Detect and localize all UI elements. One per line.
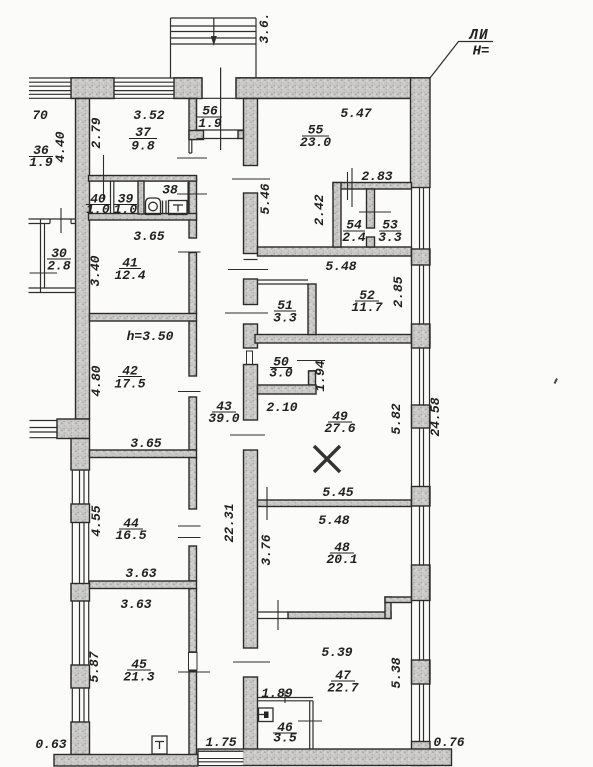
wall: room51 right wall: [308, 284, 316, 335]
svg-text:24.58: 24.58: [428, 397, 443, 436]
wall: top-left corner block: [71, 78, 114, 99]
divider rooms 40/39 thin wall: [111, 181, 114, 214]
wall: left below jut: [71, 439, 90, 471]
svg-text:3.3: 3.3: [273, 311, 297, 326]
wall: left block 5: [71, 722, 90, 755]
wall: corridor-left seg3: [189, 253, 197, 314]
room56 niche lines: [197, 138, 239, 140]
svg-text:22.7: 22.7: [327, 681, 358, 696]
underline room30: [47, 258, 71, 260]
dim line room50 door: [297, 360, 325, 362]
underline room40: [86, 204, 110, 206]
svg-text:22.31: 22.31: [222, 503, 237, 542]
room46 right wall: [310, 701, 313, 749]
svg-text:20.1: 20.1: [326, 552, 357, 567]
underline room52: [355, 300, 379, 302]
wall: right outer block 1: [412, 249, 431, 265]
wall: top band segment mid: [174, 78, 202, 99]
door box room45: [189, 653, 198, 671]
svg-text:3.76: 3.76: [259, 534, 274, 565]
wall: left block 2: [71, 504, 90, 523]
wall: right outer top corner: [411, 78, 431, 188]
window: right wall inner edge line: [411, 188, 413, 742]
svg-text:3.63: 3.63: [125, 566, 156, 581]
underline room37: [129, 138, 157, 140]
wall: corridor-right seg5: [244, 365, 258, 421]
svg-text:3.3: 3.3: [378, 230, 402, 245]
window: left wall room45b: [72, 688, 88, 722]
dim tick room54 top: [351, 168, 353, 207]
dim line room38: [177, 193, 207, 195]
wall: divider 39/38: [138, 181, 144, 214]
furniture X mark room49: [314, 446, 340, 472]
svg-text:5.48: 5.48: [318, 513, 349, 528]
dim tick rooms40 band: [103, 155, 105, 200]
dim tick room49 band: [266, 487, 268, 520]
svg-text:2.42: 2.42: [312, 194, 327, 225]
door frame box corridor right wall: [247, 351, 253, 365]
dim line corridor y269: [228, 269, 268, 271]
wall: corridor-right seg4: [244, 324, 258, 348]
leader line to elevation label: [430, 42, 493, 79]
dim line room42 door: [178, 391, 201, 393]
wall: corridor-left seg2: [189, 176, 197, 238]
window: right wall pane lines seg6: [420, 601, 424, 661]
dim line rooms54/53: [359, 211, 391, 213]
wall: room55 bottom band: [258, 247, 412, 256]
underline room48: [330, 552, 354, 554]
wall: left outer main: [76, 99, 90, 420]
corridor exit lines over white: [198, 759, 244, 762]
stairs treads: [171, 18, 257, 44]
svg-text:1.89: 1.89: [261, 686, 292, 701]
underline room50: [270, 367, 292, 369]
wall: stair lobby corner: [189, 131, 204, 140]
corridor bottom exit lines: [198, 751, 244, 762]
wall: right outer block 4: [412, 487, 431, 507]
wall: corridor-left seg6: [189, 458, 197, 510]
svg-text:3.40: 3.40: [88, 255, 103, 286]
svg-text:5.47: 5.47: [340, 106, 371, 121]
window: top band lines second segment: [114, 82, 174, 94]
wall: corridor-left seg8: [189, 589, 197, 653]
wall: band 44/45: [90, 581, 197, 589]
fixture: sink room38: [169, 201, 188, 215]
window: top-left band lines: [29, 82, 71, 94]
dim line room45 door: [178, 671, 210, 673]
wall: band bottom of rooms 40-39-38: [89, 214, 197, 221]
underline room55: [302, 135, 329, 137]
wall: rooms 51-52 bottom band: [255, 335, 412, 344]
underline room44: [119, 528, 143, 530]
wall: right outer block 5: [412, 565, 431, 601]
fixture: toilet room38: [146, 198, 161, 215]
svg-text:5.48: 5.48: [325, 259, 356, 274]
fixture: toilet flush pipe: [163, 201, 167, 215]
wall: left block 3: [71, 584, 90, 602]
wall: divider 54/53 lower: [367, 237, 375, 247]
dim line corridor y662: [233, 661, 270, 663]
fixture: heater room46: [259, 708, 274, 722]
wall: left block 4: [71, 665, 90, 688]
window: right wall pane lines seg7: [420, 684, 424, 742]
room56 bottom edge: [197, 129, 244, 131]
room30 bottom wall: [29, 288, 76, 293]
svg-text:4.40: 4.40: [53, 131, 68, 162]
mark: small dash right margin: [555, 379, 558, 384]
room38 right wall thin line: [187, 182, 189, 214]
dim tick room30 left: [30, 272, 58, 274]
svg-text:0.63: 0.63: [35, 737, 66, 752]
wall: corridor-left seg9: [189, 671, 197, 755]
room30 top wall: [29, 219, 76, 224]
wall: corridor-left seg1: [189, 99, 197, 140]
svg-text:1.94: 1.94: [313, 360, 328, 391]
dim tick room54 top b: [347, 172, 349, 200]
svg-text:70: 70: [32, 108, 48, 123]
dim line room51 door: [225, 312, 268, 314]
wall: divider 54/53 upper: [367, 189, 375, 228]
stairs direction arrow: [211, 36, 217, 46]
svg-text:4.80: 4.80: [89, 365, 104, 396]
wall: right outer block 6: [412, 660, 431, 684]
svg-text:2.85: 2.85: [391, 276, 406, 307]
dim lines room44 door: [178, 526, 201, 538]
wall: divider 47/48 upper band: [385, 597, 412, 603]
underline room47: [331, 680, 355, 682]
svg-text:11.7: 11.7: [351, 300, 382, 315]
svg-text:12.4: 12.4: [114, 268, 145, 283]
dim line stair door: [177, 157, 207, 159]
node: stair extension line: [220, 68, 222, 151]
underline room39: [114, 204, 137, 206]
wall: left jut block: [57, 419, 90, 439]
window: left wall room45a: [72, 601, 88, 665]
svg-text:2.4: 2.4: [342, 230, 366, 245]
stairs center line with arrow: [213, 18, 215, 42]
wall: corridor-right seg7: [244, 677, 258, 750]
svg-text:ЛИ: ЛИ: [468, 28, 488, 44]
svg-text:5.82: 5.82: [389, 403, 404, 434]
corridor bottom white opening: [199, 752, 243, 765]
wall: band top of rooms 40-39: [89, 176, 197, 182]
fixture: sink room45: [152, 736, 167, 754]
underline room51: [274, 310, 296, 312]
wall: room50 bottom band: [258, 385, 317, 394]
wall: thin stub below stair lobby: [189, 140, 192, 154]
wall: room50 right wall piece: [309, 371, 316, 385]
dim tick room46 top: [284, 691, 286, 703]
svg-text:4.55: 4.55: [89, 505, 104, 536]
window: left jut band: [30, 421, 58, 438]
wall: corridor-right seg1: [244, 99, 258, 166]
wall: right outer block 2: [412, 324, 431, 348]
svg-text:1.75: 1.75: [205, 735, 236, 750]
wire: top wall top edge right of stair opening: [236, 77, 430, 79]
underline room53: [379, 230, 401, 232]
wall: bottom band left: [54, 755, 198, 767]
svg-text:5.87: 5.87: [87, 651, 102, 682]
room51 top thin wall: [258, 280, 309, 284]
dim line room41 door: [178, 251, 201, 253]
underline room49: [328, 421, 352, 423]
svg-text:16.5: 16.5: [115, 528, 146, 543]
window: left wall room44: [72, 470, 88, 504]
svg-text:17.5: 17.5: [114, 377, 145, 392]
wire: top wall bottom edge: [29, 97, 411, 99]
wall: corridor-left seg5: [189, 397, 197, 450]
room56 left edge: [196, 99, 198, 131]
window: right wall pane lines seg5: [420, 506, 424, 565]
wall: corridor-left seg4: [189, 321, 197, 376]
room30 left wall: [41, 219, 45, 293]
svg-text:5.46: 5.46: [258, 183, 273, 214]
underline room43: [212, 411, 236, 413]
wall: divider 47/48 riser: [385, 597, 391, 619]
window: right wall outer edge line: [429, 188, 431, 742]
svg-text:2.8: 2.8: [47, 259, 71, 274]
room46 top wall: [258, 698, 314, 701]
svg-text:21.3: 21.3: [123, 670, 154, 685]
svg-text:H=: H=: [473, 44, 490, 60]
window: left wall room44/45: [72, 523, 88, 584]
svg-text:2.10: 2.10: [266, 400, 297, 415]
svg-text:39.0: 39.0: [208, 411, 239, 426]
svg-text:2.79: 2.79: [89, 117, 104, 148]
fixture: heater black mark: [264, 712, 269, 719]
svg-text:h=3.50: h=3.50: [127, 329, 174, 344]
wall: corridor-right seg6: [244, 450, 258, 648]
svg-text:3.52: 3.52: [133, 108, 164, 123]
underline room56: [197, 116, 222, 118]
window: right wall pane lines seg4: [420, 428, 424, 487]
wall: right outer bottom: [412, 742, 431, 766]
svg-text:23.0: 23.0: [300, 135, 331, 150]
underline room42: [118, 376, 142, 378]
dim line corridor y435: [230, 434, 265, 436]
wall: corridor-left seg7: [189, 546, 197, 581]
wire: stair opening jambs: [202, 78, 236, 98]
wall: rooms 54-53 top band: [333, 183, 412, 190]
wall: divider 47/48 lower band: [288, 612, 391, 619]
svg-text:3.63: 3.63: [120, 597, 151, 612]
svg-text:3.6.: 3.6.: [257, 12, 272, 43]
dim tick room30 top: [60, 208, 62, 233]
svg-text:5.38: 5.38: [389, 657, 404, 688]
underline room41: [119, 268, 141, 270]
wall: band 42/44: [90, 450, 197, 458]
dim line room46 right: [298, 720, 322, 722]
svg-text:5.45: 5.45: [322, 485, 353, 500]
dim line corridor 5.46: [232, 178, 270, 180]
wall: right outer block 3: [412, 405, 431, 428]
wall: top band long right: [236, 78, 411, 99]
dim tick divider 47/48: [277, 600, 279, 630]
wall: corridor-right seg3: [244, 279, 258, 305]
wall: room56 niche block: [238, 131, 244, 139]
svg-text:27.6: 27.6: [324, 421, 355, 436]
svg-text:3.65: 3.65: [130, 436, 161, 451]
window: right wall pane lines seg1: [420, 188, 424, 250]
svg-text:0.76: 0.76: [433, 735, 464, 750]
wall: room49 bottom band: [258, 500, 412, 507]
room30 door line: [50, 219, 71, 224]
wall: room54 left wall: [333, 183, 341, 248]
window: right wall pane lines seg3: [420, 348, 424, 405]
underline room46: [273, 732, 297, 734]
wall: band 41/42: [90, 314, 197, 322]
svg-text:5.39: 5.39: [321, 645, 352, 660]
underline room45: [127, 669, 151, 671]
svg-text:2.83: 2.83: [361, 169, 392, 184]
divider 47/48 door gap lines: [258, 612, 289, 619]
underline room54: [343, 230, 365, 232]
underline room36: [29, 156, 53, 158]
stairs side walls: [171, 18, 257, 78]
wire: top wall top edge left of stair opening: [29, 77, 202, 79]
door line in corridor right wall gap: [244, 259, 258, 261]
svg-text:1.9: 1.9: [198, 116, 222, 131]
window: right wall pane lines seg2: [420, 265, 424, 324]
wall: corridor-right seg2: [244, 193, 258, 254]
svg-text:9.8: 9.8: [131, 139, 155, 154]
svg-text:1.9: 1.9: [29, 155, 53, 170]
svg-text:38: 38: [162, 183, 178, 198]
wall: bottom band right: [198, 749, 452, 766]
room50 door stub: [309, 370, 317, 372]
svg-text:3.65: 3.65: [133, 229, 164, 244]
